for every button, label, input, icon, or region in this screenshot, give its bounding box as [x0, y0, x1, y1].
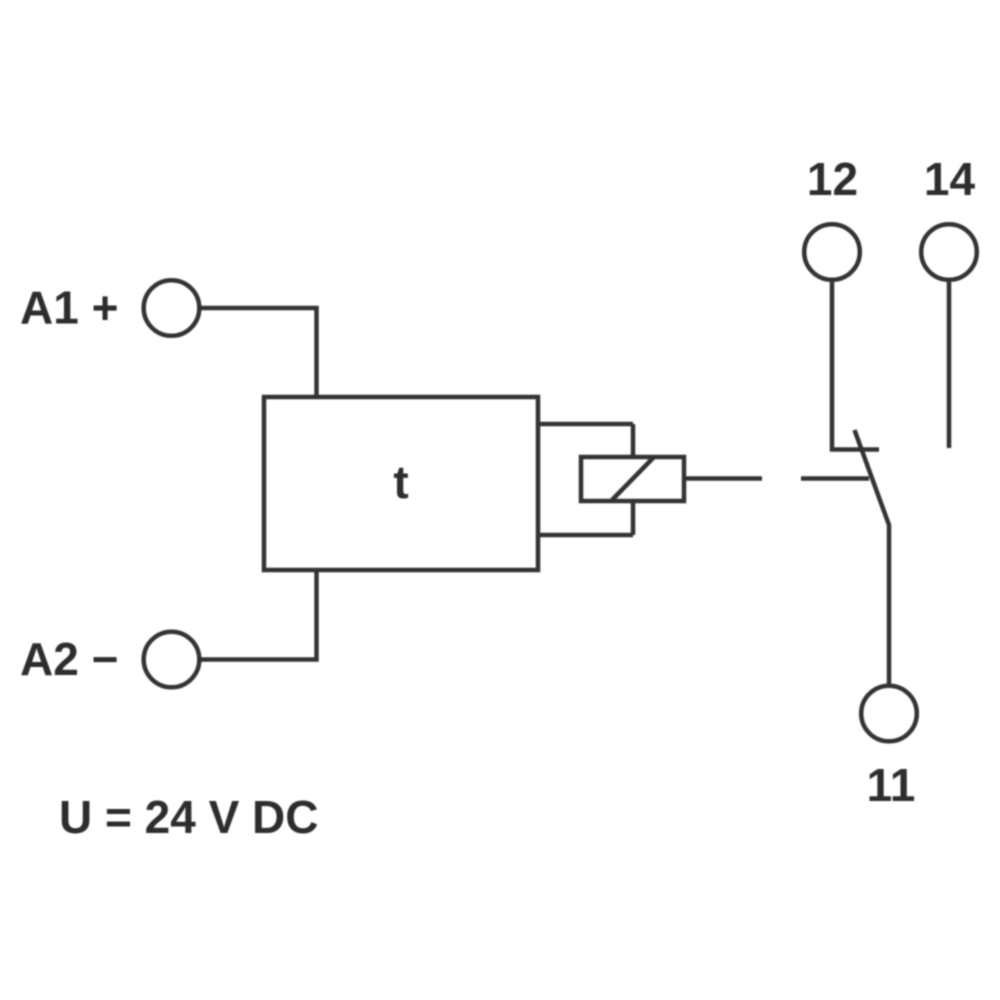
wire A2 to timer block: [199, 570, 317, 660]
terminal 14: [921, 224, 977, 280]
wire terminal 14 (NO contact): [947, 280, 952, 448]
svg-text:A2 −: A2 −: [20, 633, 118, 685]
wire A1 to timer block: [199, 308, 317, 397]
svg-text:12: 12: [807, 153, 858, 205]
terminal 11: [861, 686, 917, 742]
terminal A2: [144, 632, 200, 688]
svg-text:11: 11: [867, 759, 916, 811]
svg-text:U = 24 V DC: U = 24 V DC: [59, 791, 319, 843]
wire terminal 12 to NC contact: [832, 280, 879, 450]
terminal 12: [804, 224, 860, 280]
actuation link wire segment 2: [801, 476, 869, 481]
relay coil K (slow-operating): [581, 457, 684, 501]
terminal A1: [144, 280, 200, 336]
timer block t: [264, 397, 538, 570]
wire timer block to coil top: [538, 422, 633, 427]
svg-text:t: t: [393, 456, 408, 508]
svg-text:A1 +: A1 +: [20, 282, 118, 334]
wire timer block to coil bottom: [538, 533, 633, 538]
contact lever (changeover contact): [855, 430, 890, 685]
coil diagonal stroke: [611, 457, 654, 501]
actuation link wire segment 1: [684, 476, 762, 481]
svg-text:14: 14: [924, 153, 976, 205]
wire coil vertical link: [631, 424, 636, 535]
